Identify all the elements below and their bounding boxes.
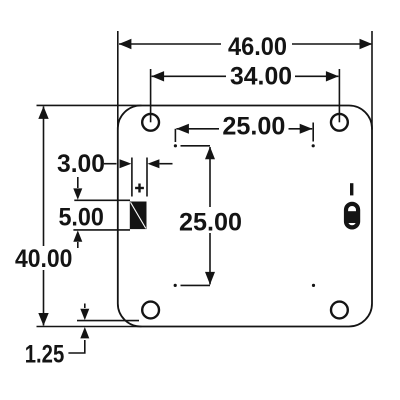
arrowhead 1.25 up [80, 327, 89, 338]
svg-text:3.00: 3.00 [57, 150, 105, 178]
svg-text:46.00: 46.00 [228, 33, 287, 61]
extension line 1.25 upper [77, 320, 139, 322]
svg-text:25.00: 25.00 [222, 113, 285, 141]
mounting hole bottom-left [142, 302, 159, 319]
extension line pad bottom (5.00) [73, 229, 130, 231]
arrow shaft 5.00 bottom [77, 242, 79, 248]
arrowhead 25.00h left [176, 124, 189, 134]
center mark dash top-left to vertical dim [181, 145, 211, 147]
extension line top edge left (40.00) [37, 104, 142, 106]
svg-text:34.00: 34.00 [230, 62, 292, 90]
dimension line 40.00 [43, 106, 45, 246]
center dot bottom-right [312, 284, 315, 287]
svg-text:25.00: 25.00 [179, 209, 242, 237]
arrowhead 34.00 left [151, 71, 164, 81]
extension line right edge up (46.00) [371, 31, 373, 130]
extension line left edge up (46.00) [117, 31, 119, 130]
arrowhead 34.00 right [326, 71, 339, 81]
svg-text:40.00: 40.00 [15, 245, 73, 273]
board outline [118, 106, 372, 327]
minus symbol (vertical bar) [350, 183, 353, 195]
center line top-left mark vertical [174, 129, 176, 142]
arrow shaft 1.25 upper [84, 304, 86, 309]
svg-text:5.00: 5.00 [58, 203, 104, 231]
extension line left hole center (34.00) [150, 69, 152, 122]
arrowhead 3.00 pointing right [120, 159, 132, 168]
mounting hole top-right [331, 114, 348, 131]
arrowhead 46.00 right [360, 39, 373, 49]
svg-text:1.25: 1.25 [25, 341, 65, 369]
extension line bottom edge left (40.00) [37, 326, 142, 328]
arrowhead 40.00 down [38, 313, 48, 326]
dimension line 34.00 [152, 75, 226, 77]
arrowhead 5.00 up [73, 230, 82, 241]
leader 1.25 [68, 340, 84, 353]
center mark dash bottom-left to vertical dim [181, 284, 211, 286]
mounting hole top-left [142, 114, 159, 131]
arrowhead 25.00v down [205, 272, 215, 285]
extension line right hole center (34.00) [338, 69, 340, 122]
arrowhead 25.00v up [205, 147, 215, 160]
center dot bottom-left [174, 284, 177, 287]
leader 3.00 left [104, 163, 117, 165]
center line top-right mark vertical [312, 123, 314, 142]
plus symbol [135, 184, 144, 193]
leader 3.00 right [160, 163, 173, 165]
dimension line 25.00 horizontal [176, 128, 219, 130]
arrowhead 46.00 left [119, 39, 132, 49]
arrow shaft 5.00 top [77, 177, 79, 188]
solder pad positive terminal [130, 202, 147, 230]
center dot top-left [174, 144, 177, 147]
extension line pad right edge (3.00) [146, 158, 148, 197]
arrowhead 40.00 up [38, 106, 48, 119]
dimension line 46.00 [119, 43, 221, 45]
arrowhead 1.25 down [80, 309, 89, 320]
arrowhead 5.00 down [73, 188, 82, 199]
mounting hole bottom-right [331, 302, 348, 319]
dimension line 25.00 vertical [209, 147, 211, 207]
center dot top-right [312, 144, 315, 147]
negative terminal slot [346, 204, 358, 228]
arrowhead 25.00h right [300, 124, 313, 134]
arrowhead 3.00 pointing left [148, 159, 160, 168]
extension line pad left edge (3.00) [131, 158, 133, 197]
extension line pad top (5.00) [74, 199, 130, 201]
